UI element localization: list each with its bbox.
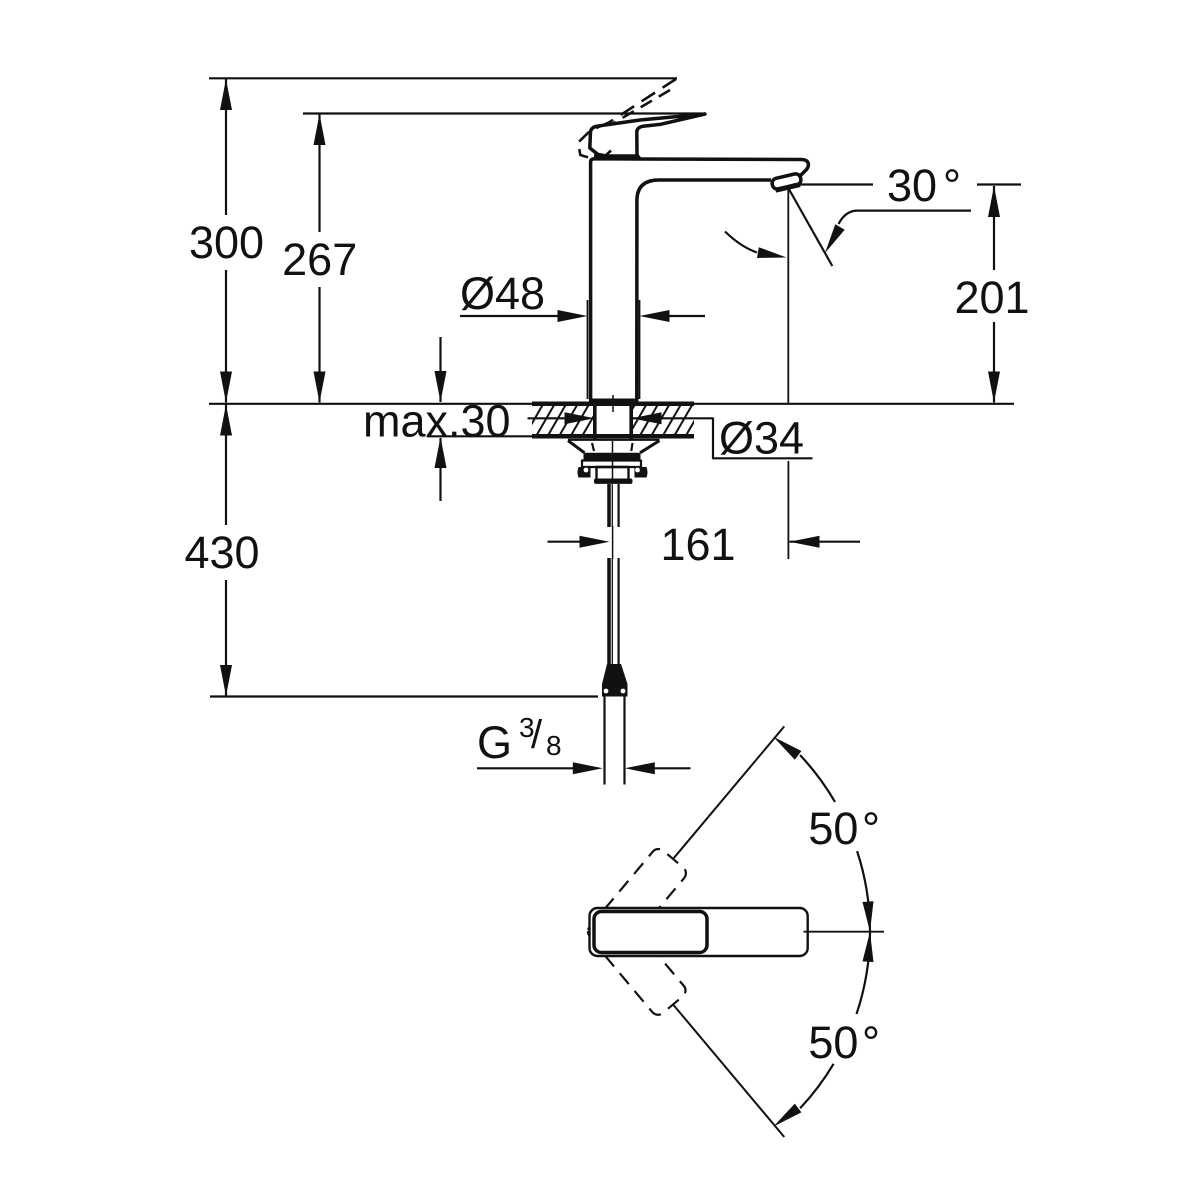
30deg arrowhead [825, 224, 845, 253]
arc arrowhead below centerline [863, 932, 874, 962]
svg-text:max.30: max.30 [363, 396, 511, 447]
brass ring white band [582, 461, 641, 468]
hose collar black [594, 479, 633, 484]
aerator [771, 173, 802, 191]
handle dashed open position lever edge B [612, 90, 670, 124]
svg-text:/: / [531, 713, 543, 757]
svg-text:°: ° [862, 1017, 880, 1068]
svg-text:30: 30 [887, 160, 937, 211]
swivel arc middle segment [857, 851, 870, 1014]
svg-text:°: ° [943, 160, 961, 211]
hose connector black [602, 664, 628, 697]
svg-text:430: 430 [184, 527, 259, 578]
dimension 267 vertical line [318, 114, 320, 232]
swivel arc lower segment [800, 1064, 834, 1109]
svg-text:161: 161 [660, 519, 735, 570]
dimension 300 vertical line [225, 79, 227, 215]
handle base contact thick line [594, 154, 639, 159]
arrowheads: 201 [988, 186, 1000, 217]
wire deck bottom line [427, 435, 694, 437]
faucet body bottom line [589, 399, 639, 402]
swivel arc upper segment [800, 755, 835, 802]
svg-text:Ø48: Ø48 [460, 268, 545, 319]
top view handle lever inner outline [594, 912, 707, 953]
svg-text:8: 8 [546, 730, 562, 761]
dimension d48 lines [460, 315, 559, 317]
d48 extension lines [587, 300, 589, 399]
arrowheads: d34 [565, 412, 595, 424]
faucet body outline [591, 159, 809, 400]
dimension max30 upper arrow line [439, 337, 441, 402]
arc arrowhead above centerline [863, 901, 874, 931]
arrowheads: dimension 300 [220, 79, 232, 110]
top view dashed handle rotated down 50 [584, 905, 799, 1150]
161 right extension line (jet axis below deck) [787, 461, 789, 559]
top view centerline [804, 931, 885, 933]
svg-text:50: 50 [808, 803, 858, 854]
dimension max30 lower arrow line [439, 438, 441, 501]
flange cone inner slants [592, 443, 633, 451]
arc arrowhead top [773, 737, 801, 760]
mounting flange top line [568, 439, 660, 441]
30deg leader underline with curve to arrow [839, 211, 972, 224]
handle side view solid [590, 114, 705, 158]
top view handle outer outline [590, 908, 808, 956]
svg-text:50: 50 [808, 1017, 858, 1068]
rubber washer black band [584, 453, 641, 461]
svg-text:°: ° [862, 803, 880, 854]
flange cone outer slants [568, 441, 660, 453]
svg-text:300: 300 [189, 217, 264, 268]
nut left lug [578, 467, 591, 478]
top view dashed handle rotated up 50 [585, 713, 800, 958]
wire deck top line [209, 403, 1014, 405]
hose lower tube [603, 697, 605, 785]
dimension 201 vertical line [993, 186, 995, 270]
swivel curved arrow [725, 232, 757, 253]
spout underside line [637, 180, 771, 400]
jet vertical line from aerator to deck [787, 189, 789, 403]
wire 430 bottom reference line [210, 695, 598, 697]
nut right lug [635, 467, 648, 478]
shank through deck [593, 401, 597, 440]
svg-text:267: 267 [282, 234, 357, 285]
handle dashed open body outline [578, 123, 609, 159]
arrowheads: G38 [573, 762, 603, 774]
30deg leader line upper [793, 183, 873, 185]
centerline segments faucet axis [612, 395, 614, 412]
dimension 201 top tick [977, 183, 1021, 185]
dimension 430 vertical line [225, 405, 227, 526]
dimension 161 lines [548, 541, 582, 543]
wire reference line 267 [303, 112, 702, 114]
wire top reference line 300 [209, 77, 677, 79]
arrowheads: max30 [435, 371, 447, 402]
hose upper tube [607, 484, 611, 527]
handle dashed open position lever edge A [609, 79, 676, 123]
water jet 30deg line [788, 188, 832, 266]
arrowheads: dimension 267 [314, 114, 326, 145]
nut body [597, 467, 629, 480]
G38 dimension lines [477, 767, 574, 769]
arc arrowhead bottom [773, 1104, 801, 1127]
hatch deck section [513, 404, 704, 437]
svg-text:Ø34: Ø34 [719, 413, 804, 464]
svg-text:G: G [477, 717, 512, 768]
svg-text:201: 201 [954, 272, 1029, 323]
arrowheads: dimension 430 [220, 405, 232, 436]
handle dashed inner segment [603, 151, 611, 159]
arrowheads: d48 [558, 310, 588, 322]
arrowheads: 161 [580, 536, 610, 548]
dimension d34 leader [528, 417, 567, 419]
